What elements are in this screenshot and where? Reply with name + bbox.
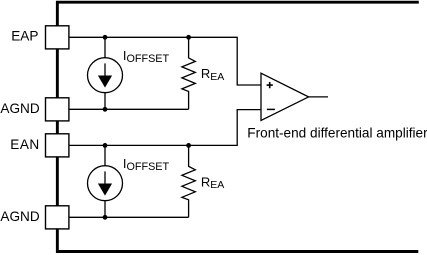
svg-text:Front-end differential amplifi: Front-end differential amplifier bbox=[247, 125, 427, 140]
junction dot AGND1/CS1 bbox=[103, 107, 108, 112]
svg-text:IOFFSET: IOFFSET bbox=[123, 48, 170, 65]
wire EAN net to op-amp - input bbox=[70, 110, 262, 146]
current source I_OFFSET 2 bbox=[88, 145, 123, 217]
svg-text:AGND: AGND bbox=[0, 209, 39, 224]
junction dot AGND2/CS2 bbox=[103, 215, 108, 220]
svg-text:EAP: EAP bbox=[11, 29, 38, 44]
wire AGND2 net bbox=[70, 216, 189, 218]
current source I_OFFSET 1 bbox=[88, 37, 123, 109]
wire AGND1 net bbox=[70, 108, 189, 110]
pin EAN bbox=[46, 134, 69, 157]
resistor R_EA 2 bbox=[182, 145, 195, 217]
wire EAP net to op-amp + input bbox=[70, 37, 262, 85]
svg-text:IOFFSET: IOFFSET bbox=[123, 156, 170, 173]
svg-text:REA: REA bbox=[201, 174, 224, 191]
wire op-amp output bbox=[309, 96, 328, 98]
resistor R_EA 1 bbox=[182, 37, 195, 109]
pin EAP bbox=[46, 26, 69, 49]
svg-text:EAN: EAN bbox=[10, 137, 39, 152]
junction dot EAP/CS1 bbox=[103, 35, 108, 40]
pin AGND2 bbox=[46, 206, 69, 229]
junction dot EAN/CS2 bbox=[103, 143, 108, 148]
svg-text:AGND: AGND bbox=[0, 101, 39, 116]
svg-text:REA: REA bbox=[201, 66, 224, 83]
junction dot EAP/R1 bbox=[186, 35, 191, 40]
junction dot EAN/R2 bbox=[186, 143, 191, 148]
op-amp U1 bbox=[261, 73, 309, 120]
pin AGND1 bbox=[46, 98, 69, 121]
